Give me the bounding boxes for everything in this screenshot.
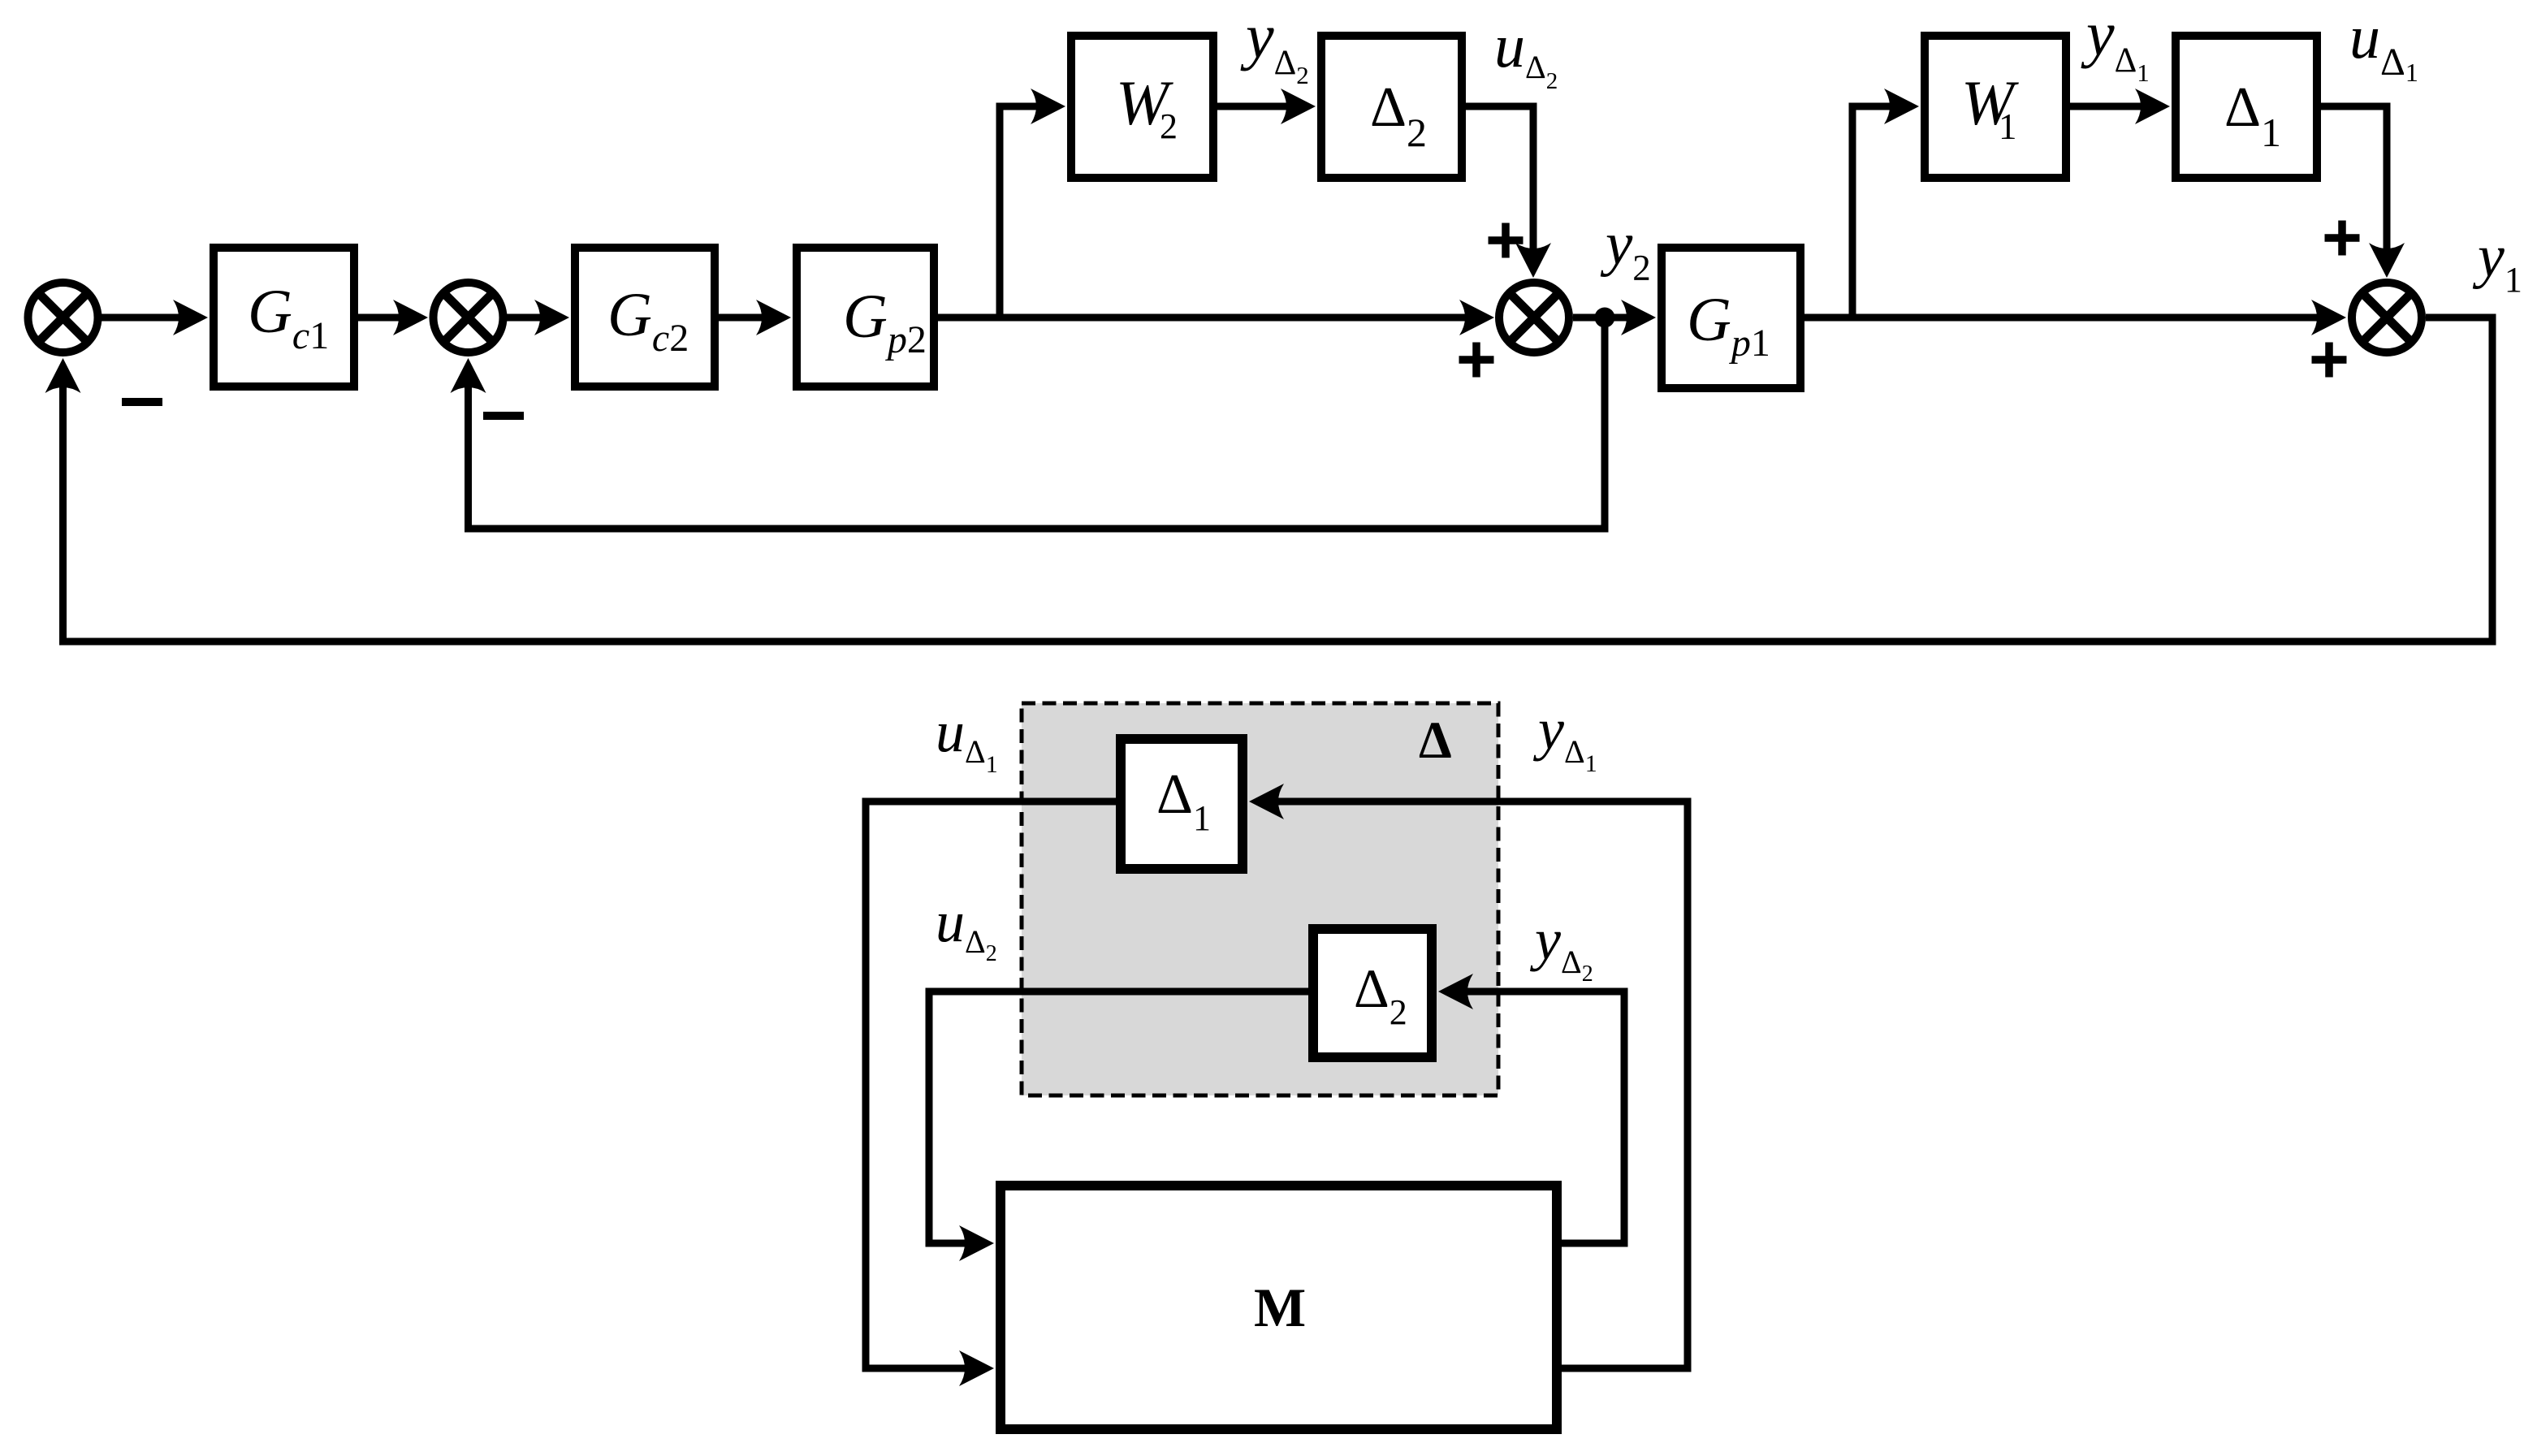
- plus sign left input S3: [1459, 343, 1494, 378]
- summing junction S3: [1499, 283, 1569, 352]
- wire W2 to D2: [1217, 89, 1316, 124]
- block M: [1001, 1186, 1557, 1429]
- wire S1 to Gc1: [100, 300, 208, 335]
- label u_D1 lower: [936, 699, 998, 778]
- block Gp1: [1662, 248, 1800, 388]
- wire y_D1 from M to Delta1: [1249, 784, 1688, 1368]
- minus sign at S1: [122, 398, 162, 406]
- block Gc2: [575, 248, 715, 387]
- label y_D1: [2081, 0, 2150, 87]
- label y_D1 lower: [1532, 697, 1597, 777]
- wire S2 to Gc2: [505, 300, 569, 335]
- label y_D2 lower: [1529, 907, 1593, 987]
- label u_D2: [1494, 12, 1558, 94]
- summing junction S1: [28, 283, 98, 352]
- block Gc1: [214, 248, 354, 387]
- plus sign above S3: [1489, 223, 1523, 258]
- label y1: [2472, 223, 2522, 300]
- node dot y2: [1595, 308, 1615, 328]
- wire branch up to W2: [1000, 89, 1065, 318]
- wire S3 to Gp1 with node: [1573, 300, 1656, 335]
- block Delta1 top: [2176, 36, 2317, 178]
- label u_D1: [2349, 3, 2418, 87]
- label y2: [1600, 210, 1651, 288]
- wire D2 down to S3: [1466, 106, 1551, 278]
- wire Gc2 to Gp2: [719, 300, 791, 335]
- block Delta2 lower: [1313, 929, 1432, 1057]
- svg-text:M: M: [1254, 1277, 1306, 1338]
- minus sign at S2: [483, 412, 524, 420]
- wire branch up to W1: [1852, 89, 1919, 318]
- wire u_D2 from Delta2 to M: [929, 992, 1308, 1261]
- svg-text:Δ: Δ: [1419, 711, 1452, 770]
- svg-text:W1: W1: [1961, 67, 2019, 147]
- plus sign left input S4: [2312, 343, 2347, 378]
- wire D1 down to S4: [2321, 106, 2405, 278]
- block Gp2: [797, 248, 934, 387]
- wire y_D2 from M to Delta2: [1438, 974, 1624, 1243]
- summing junction S4: [2352, 283, 2422, 352]
- wire outer feedback y1 to S1: [45, 318, 2493, 642]
- block Delta2 top: [1321, 36, 1462, 178]
- wire Gp2 to S3: [938, 300, 1494, 335]
- svg-text:W2: W2: [1116, 67, 1178, 146]
- label Delta bold: [1419, 711, 1452, 770]
- wire W1 to D1: [2070, 89, 2170, 124]
- block Delta1 lower: [1121, 739, 1243, 869]
- wire Gc1 to S2: [358, 300, 428, 335]
- plus sign above S4: [2325, 221, 2360, 256]
- summing junction S2: [434, 283, 504, 352]
- label y_D2: [1240, 1, 1309, 89]
- wire u_D1 from Delta1 to M: [866, 801, 1116, 1386]
- wire Gp1 to S4: [1804, 300, 2346, 335]
- label u_D2 lower: [936, 889, 997, 966]
- block W2: [1071, 36, 1213, 178]
- wire inner feedback y2 to S2: [451, 318, 1606, 529]
- block W1: [1925, 36, 2066, 178]
- uncertainty set dashed box Delta: [1022, 703, 1498, 1095]
